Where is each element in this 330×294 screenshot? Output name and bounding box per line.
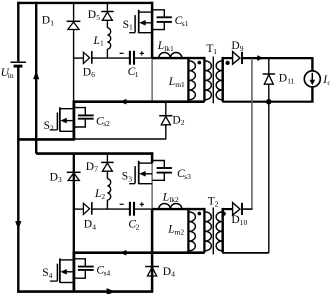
svg-text:D: D bbox=[42, 15, 50, 27]
svg-text:lk2: lk2 bbox=[169, 195, 179, 204]
svg-text:1: 1 bbox=[213, 47, 217, 56]
svg-text:6: 6 bbox=[91, 70, 95, 79]
svg-text:4: 4 bbox=[49, 271, 53, 280]
svg-text:L: L bbox=[167, 224, 174, 236]
svg-text:2: 2 bbox=[101, 192, 105, 201]
svg-text:s3: s3 bbox=[184, 172, 191, 181]
svg-text:L: L bbox=[94, 188, 101, 200]
svg-text:9: 9 bbox=[240, 44, 244, 53]
svg-text:2: 2 bbox=[181, 118, 185, 127]
svg-text:3: 3 bbox=[58, 175, 62, 184]
svg-text:1: 1 bbox=[50, 18, 54, 27]
svg-text:D: D bbox=[86, 161, 94, 173]
svg-text:L: L bbox=[162, 191, 169, 203]
svg-text:D: D bbox=[172, 114, 180, 126]
svg-text:s4: s4 bbox=[104, 268, 111, 277]
svg-text:2: 2 bbox=[136, 222, 140, 231]
svg-text:D: D bbox=[231, 214, 239, 226]
svg-text:3: 3 bbox=[128, 174, 132, 183]
svg-text:D: D bbox=[163, 266, 171, 278]
svg-text:11: 11 bbox=[287, 76, 294, 85]
svg-text:s1: s1 bbox=[182, 19, 189, 28]
svg-text:5: 5 bbox=[96, 13, 100, 22]
svg-text:D: D bbox=[88, 9, 96, 21]
svg-text:2: 2 bbox=[50, 124, 54, 133]
svg-text:D: D bbox=[279, 73, 287, 85]
svg-text:m1: m1 bbox=[175, 80, 185, 89]
svg-text:D: D bbox=[83, 66, 91, 78]
svg-text:1: 1 bbox=[100, 39, 104, 48]
svg-text:L: L bbox=[93, 35, 100, 47]
svg-text:D: D bbox=[231, 40, 239, 52]
svg-text:D: D bbox=[50, 171, 58, 183]
svg-text:10: 10 bbox=[240, 218, 248, 227]
svg-text:4: 4 bbox=[92, 222, 96, 231]
svg-text:s2: s2 bbox=[103, 119, 110, 128]
svg-text:1: 1 bbox=[129, 23, 133, 32]
svg-text:D: D bbox=[84, 219, 92, 231]
svg-text:m2: m2 bbox=[175, 227, 185, 236]
svg-text:L: L bbox=[168, 76, 175, 88]
svg-text:L: L bbox=[157, 40, 164, 52]
svg-text:1: 1 bbox=[135, 70, 139, 79]
svg-text:2: 2 bbox=[215, 199, 219, 208]
svg-text:4: 4 bbox=[171, 270, 175, 279]
svg-text:7: 7 bbox=[94, 165, 98, 174]
svg-text:in: in bbox=[8, 71, 14, 80]
svg-text:lk1: lk1 bbox=[164, 44, 174, 53]
